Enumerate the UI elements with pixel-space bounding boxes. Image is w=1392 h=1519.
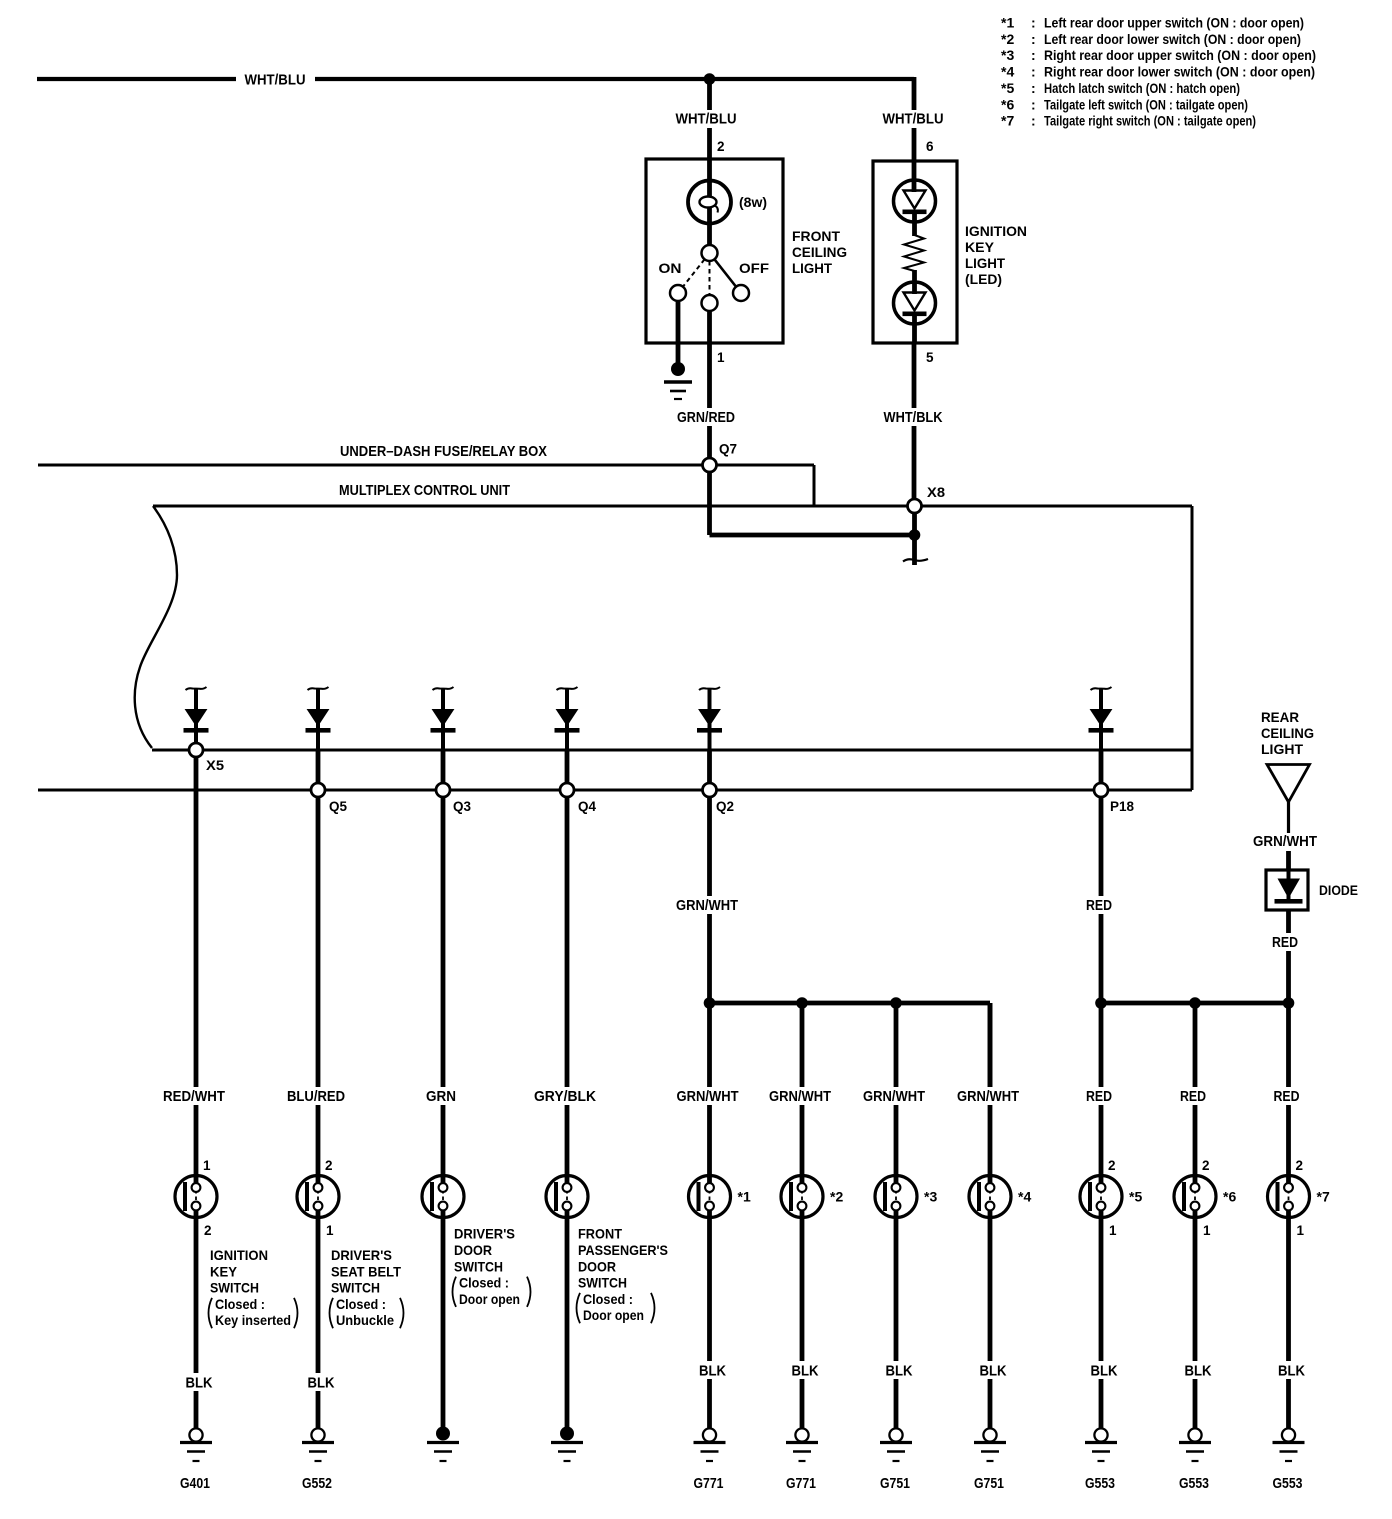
svg-text:BLK: BLK <box>886 1363 913 1380</box>
diode (Q3 column) <box>431 687 456 750</box>
svg-text:IGNITION: IGNITION <box>965 223 1027 239</box>
wire WHT/BLU drop to ignition key light pin 6 <box>912 77 917 161</box>
multiplex control unit inner line <box>152 749 1192 752</box>
svg-text:(8w): (8w) <box>739 195 767 210</box>
wire GRN/WHT down to left rear door lower switch *2 <box>800 1003 805 1183</box>
wire BLK to ground <box>707 1211 712 1429</box>
svg-text:KEY: KEY <box>210 1263 238 1279</box>
svg-text:KEY: KEY <box>965 239 995 255</box>
svg-text:*7: *7 <box>1317 1189 1330 1205</box>
svg-text:6: 6 <box>926 139 934 154</box>
label driver's seat belt switch name <box>330 1247 404 1328</box>
ground G771 <box>694 1428 726 1461</box>
svg-text::: : <box>1031 47 1036 63</box>
svg-text:SWITCH: SWITCH <box>331 1280 380 1296</box>
svg-text:Right rear door lower switch (: Right rear door lower switch (ON : door … <box>1044 64 1315 80</box>
junction branch at *3 <box>890 997 902 1009</box>
svg-text:*7: *7 <box>1001 113 1014 129</box>
label ignition key switch name <box>209 1247 298 1328</box>
connector X8 <box>908 499 922 513</box>
wire resistor to LED2 <box>912 270 917 294</box>
label REAR CEILING LIGHT <box>1261 709 1314 757</box>
svg-text:PASSENGER'S: PASSENGER'S <box>578 1242 668 1258</box>
wire link Q7 branch to X8 branch <box>710 533 915 538</box>
svg-text:*4: *4 <box>1001 64 1014 80</box>
svg-text:*1: *1 <box>738 1189 751 1205</box>
svg-text:DRIVER'S: DRIVER'S <box>454 1226 515 1242</box>
LED 1 ignition key light <box>894 180 936 222</box>
svg-text:*4: *4 <box>1018 1189 1031 1205</box>
svg-text:MULTIPLEX CONTROL UNIT: MULTIPLEX CONTROL UNIT <box>339 482 510 499</box>
switch tailgate right switch *7 <box>1268 1176 1310 1218</box>
wire branch drop *4 <box>988 1003 993 1087</box>
svg-text:Tailgate left switch (ON : tai: Tailgate left switch (ON : tailgate open… <box>1044 96 1248 112</box>
ground G751 <box>880 1428 912 1461</box>
connector Q4 <box>560 783 574 797</box>
svg-text::: : <box>1031 15 1036 31</box>
svg-text::: : <box>1031 31 1036 47</box>
connector X5 <box>189 743 203 757</box>
junction branch at *1 <box>704 997 716 1009</box>
wire to ground <box>565 1211 570 1432</box>
svg-text:SEAT BELT: SEAT BELT <box>331 1263 401 1279</box>
wire right branch bus RED <box>1101 1001 1289 1006</box>
svg-text:2: 2 <box>204 1223 212 1238</box>
svg-text:2: 2 <box>717 139 725 154</box>
wire WHT/BLU drop to front ceiling light pin 2 <box>707 79 712 160</box>
wire diode to connector <box>316 750 321 783</box>
svg-text:*5: *5 <box>1001 80 1014 96</box>
diode (X5 column) <box>184 687 209 743</box>
svg-text:Q5: Q5 <box>329 799 347 814</box>
wire RED down to tailgate right switch *7 <box>1286 1003 1291 1183</box>
svg-text:GRN/WHT: GRN/WHT <box>676 897 738 914</box>
switch arm (OFF position) <box>710 253 742 293</box>
svg-text:FRONT: FRONT <box>578 1226 622 1242</box>
label IGNITION KEY LIGHT (LED) <box>965 223 1027 287</box>
svg-text:Q4: Q4 <box>578 799 596 814</box>
svg-text:RED: RED <box>1086 1088 1112 1105</box>
svg-text:Left rear door upper switch (O: Left rear door upper switch (ON : door o… <box>1044 15 1304 31</box>
wire BLK to ground <box>1099 1211 1104 1429</box>
switch front passenger's door switch <box>546 1176 588 1218</box>
svg-text:OFF: OFF <box>739 260 769 276</box>
label FRONT CEILING LIGHT <box>792 228 847 276</box>
svg-text:G751: G751 <box>974 1475 1004 1492</box>
svg-text:Key inserted: Key inserted <box>215 1312 291 1328</box>
switch right rear door upper switch *3 <box>875 1176 917 1218</box>
switch driver's seat belt switch <box>297 1176 339 1218</box>
wire BLK to ground <box>988 1211 993 1429</box>
wire GRY/BLK down to front passenger's door switch <box>565 797 570 1183</box>
svg-text:G553: G553 <box>1273 1475 1303 1492</box>
wire diode to connector <box>1099 750 1104 783</box>
svg-text:RED/WHT: RED/WHT <box>163 1088 225 1105</box>
svg-text:RED: RED <box>1086 897 1112 914</box>
svg-text:BLK: BLK <box>1091 1363 1118 1380</box>
svg-text:*6: *6 <box>1001 96 1014 112</box>
svg-text:DOOR: DOOR <box>578 1258 616 1274</box>
svg-text:G401: G401 <box>180 1475 210 1492</box>
wire RED down to hatch latch switch *5 <box>1099 1003 1104 1183</box>
svg-text:Door open: Door open <box>583 1307 644 1323</box>
svg-text:GRY/BLK: GRY/BLK <box>534 1088 596 1105</box>
svg-text:RED: RED <box>1274 1088 1300 1105</box>
svg-text:*2: *2 <box>830 1189 843 1205</box>
svg-text:*3: *3 <box>1001 47 1014 63</box>
svg-text:BLK: BLK <box>792 1363 819 1380</box>
svg-text:DIODE: DIODE <box>1319 882 1358 898</box>
svg-text:5: 5 <box>926 350 934 365</box>
contact ON <box>670 285 686 301</box>
wire RED/WHT down to ignition key switch <box>194 757 199 1183</box>
switch driver's door switch <box>422 1176 464 1218</box>
wire GRN down to driver's door switch <box>441 797 446 1183</box>
wire LED1 to resistor <box>912 214 917 236</box>
svg-text:GRN/WHT: GRN/WHT <box>677 1088 739 1105</box>
svg-text:WHT/BLU: WHT/BLU <box>245 72 306 89</box>
svg-text:WHT/BLU: WHT/BLU <box>883 111 944 128</box>
svg-text::: : <box>1031 96 1036 112</box>
svg-text:Hatch latch switch (ON : hatch: Hatch latch switch (ON : hatch open) <box>1044 80 1240 96</box>
svg-text:*1: *1 <box>1001 15 1014 31</box>
multiplex control unit top boundary <box>153 505 1192 508</box>
wire diode to connector <box>565 750 570 783</box>
svg-text:GRN/WHT: GRN/WHT <box>1253 833 1317 850</box>
svg-text:Q2: Q2 <box>716 799 734 814</box>
ground G553 <box>1273 1428 1305 1461</box>
diode (Q5 column) <box>306 687 331 750</box>
wire BLU/RED down to driver's seat belt switch <box>316 797 321 1183</box>
under-dash fuse/relay box boundary line <box>38 465 814 506</box>
switch left rear door upper switch *1 <box>689 1176 731 1218</box>
diode (Q2 column) <box>697 687 722 750</box>
wire WHT/BLK pin5 to X8 <box>912 343 917 499</box>
dashed throw to ON contact <box>678 253 710 293</box>
svg-text:*6: *6 <box>1223 1189 1236 1205</box>
contact center (pin 1) <box>702 295 718 311</box>
connector Q5 <box>311 783 325 797</box>
svg-text:BLU/RED: BLU/RED <box>287 1088 345 1105</box>
wire GRN/RED pin1 to Q7 <box>707 311 712 458</box>
svg-text::: : <box>1031 64 1036 80</box>
ground G553 <box>1085 1428 1117 1461</box>
svg-text:LIGHT: LIGHT <box>1261 741 1303 757</box>
wire GRN/WHT down to right rear door lower switch *4 <box>988 1003 993 1183</box>
svg-text:RED: RED <box>1272 934 1298 951</box>
svg-text::: : <box>1031 80 1036 96</box>
multiplex control unit bottom boundary <box>38 789 1192 792</box>
diode box (rear ceiling light) <box>1266 870 1308 910</box>
wire BLK to ground <box>1193 1211 1198 1429</box>
ground front ceiling light <box>664 362 692 399</box>
svg-text:Door open: Door open <box>459 1291 520 1307</box>
svg-text:GRN/WHT: GRN/WHT <box>957 1088 1019 1105</box>
svg-text:Closed :: Closed : <box>215 1296 265 1312</box>
svg-text:Unbuckle: Unbuckle <box>336 1312 394 1328</box>
wire left branch bus GRN/WHT <box>710 1001 991 1006</box>
label front passenger's door switch name <box>577 1226 669 1324</box>
wire ON contact to ground <box>676 301 681 366</box>
svg-text:LIGHT: LIGHT <box>965 255 1005 271</box>
contact OFF <box>733 285 749 301</box>
wire BLK to ground <box>194 1211 199 1429</box>
resistor ignition key light <box>904 235 924 271</box>
svg-text:1: 1 <box>1297 1223 1305 1238</box>
multiplex control unit right edge <box>1191 506 1194 790</box>
svg-text:G771: G771 <box>694 1475 724 1492</box>
svg-text:BLK: BLK <box>980 1363 1007 1380</box>
bulb front ceiling light (8w) <box>688 181 731 224</box>
wire diode to connector <box>707 750 712 783</box>
wire WHT/BLU top bus <box>37 77 914 81</box>
svg-text:IGNITION: IGNITION <box>210 1247 268 1263</box>
svg-text:WHT/BLK: WHT/BLK <box>884 409 943 426</box>
svg-text:1: 1 <box>1109 1223 1117 1238</box>
svg-text:WHT/BLU: WHT/BLU <box>676 111 737 128</box>
junction branch at *5 <box>1095 997 1107 1009</box>
svg-text:BLK: BLK <box>186 1375 213 1392</box>
wire BLK to ground <box>1286 1211 1291 1429</box>
svg-text:(LED): (LED) <box>965 271 1002 287</box>
diode (Q4 column) <box>555 687 580 750</box>
junction X8 internal <box>909 529 921 541</box>
junction branch at *6 <box>1189 997 1201 1009</box>
wire GRN/WHT down to left rear door upper switch *1 <box>707 1003 712 1183</box>
dashed throw to center contact <box>709 253 711 303</box>
svg-text:BLK: BLK <box>308 1375 335 1392</box>
svg-text:2: 2 <box>1108 1158 1116 1173</box>
svg-text:GRN/WHT: GRN/WHT <box>769 1088 831 1105</box>
svg-text:2: 2 <box>325 1158 333 1173</box>
connector Q7 <box>703 458 717 472</box>
svg-text:ON: ON <box>659 260 682 276</box>
label driver's door switch name <box>453 1226 531 1307</box>
svg-text:CEILING: CEILING <box>1261 725 1314 741</box>
lamp ignition key light box <box>873 161 957 343</box>
ground G552 <box>302 1428 334 1461</box>
svg-text:G553: G553 <box>1179 1475 1209 1492</box>
svg-text:1: 1 <box>1203 1223 1211 1238</box>
svg-text:X8: X8 <box>927 485 946 500</box>
svg-text:BLK: BLK <box>1185 1363 1212 1380</box>
diode (P18 column) <box>1089 687 1114 750</box>
lamp rear ceiling light symbol <box>1267 765 1310 803</box>
internal stub tick <box>903 559 928 562</box>
svg-text:Q3: Q3 <box>453 799 471 814</box>
svg-text:1: 1 <box>203 1158 211 1173</box>
wire into LED 1 <box>912 161 917 192</box>
svg-text:G553: G553 <box>1085 1475 1115 1492</box>
lamp front ceiling light box <box>646 159 783 343</box>
svg-text:*2: *2 <box>1001 31 1014 47</box>
svg-text:Left rear door lower switch (O: Left rear door lower switch (ON : door o… <box>1044 31 1301 47</box>
svg-text:*3: *3 <box>924 1189 937 1205</box>
svg-text:P18: P18 <box>1110 799 1134 814</box>
wire RED diode to branch <box>1286 910 1291 1003</box>
connector P18 <box>1094 783 1108 797</box>
svg-text:Closed :: Closed : <box>459 1275 509 1291</box>
connector Q3 <box>436 783 450 797</box>
svg-text:Closed :: Closed : <box>583 1291 633 1307</box>
ground G751 <box>974 1428 1006 1461</box>
connector Q2 <box>703 783 717 797</box>
wire rear ceiling light to diode <box>1287 802 1290 870</box>
svg-text:UNDER–DASH FUSE/RELAY BOX: UNDER–DASH FUSE/RELAY BOX <box>340 443 547 460</box>
svg-text:GRN: GRN <box>426 1088 456 1105</box>
svg-text:BLK: BLK <box>699 1363 726 1380</box>
svg-text:1: 1 <box>717 350 725 365</box>
switch right rear door lower switch *4 <box>969 1176 1011 1218</box>
wire GRN/WHT down to right rear door upper switch *3 <box>894 1003 899 1183</box>
LED 2 ignition key light <box>894 282 936 324</box>
svg-text:G771: G771 <box>786 1475 816 1492</box>
ground driver's door switch ground <box>427 1427 459 1462</box>
svg-text:Q7: Q7 <box>719 442 737 457</box>
svg-text:REAR: REAR <box>1261 709 1299 725</box>
junction branch at *2 <box>796 997 808 1009</box>
wire Q7 down inside multiplex <box>707 472 712 535</box>
junction top bus to front ceiling light <box>704 73 716 85</box>
switch left rear door lower switch *2 <box>781 1176 823 1218</box>
svg-text:G552: G552 <box>302 1475 332 1492</box>
wire inside ceiling light pin2 to switch common <box>707 159 712 253</box>
switch tailgate left switch *6 <box>1174 1176 1216 1218</box>
svg-text:DRIVER'S: DRIVER'S <box>331 1247 392 1263</box>
wire BLK to ground <box>316 1211 321 1429</box>
wire RED P18 to branch <box>1099 797 1104 1003</box>
wire LED2 to pin 5 <box>912 316 917 343</box>
svg-text:SWITCH: SWITCH <box>210 1280 259 1296</box>
ground front passenger's door switch ground <box>551 1427 583 1462</box>
wire BLK to ground <box>800 1211 805 1429</box>
svg-text:*5: *5 <box>1129 1189 1142 1205</box>
svg-text::: : <box>1031 113 1036 129</box>
svg-text:GRN/RED: GRN/RED <box>677 409 735 426</box>
svg-text:Closed :: Closed : <box>336 1296 386 1312</box>
multiplex control unit break squiggle <box>135 506 177 748</box>
wire RED down to tailgate left switch *6 <box>1193 1003 1198 1183</box>
ground G771 <box>786 1428 818 1461</box>
wire GRN/WHT Q2 to branch <box>707 797 712 1003</box>
switch common contact front ceiling light <box>702 245 718 261</box>
diode symbol <box>1275 870 1303 904</box>
svg-text:Right rear door upper switch (: Right rear door upper switch (ON : door … <box>1044 47 1316 63</box>
junction branch at *7 <box>1283 997 1295 1009</box>
svg-text:BLK: BLK <box>1278 1363 1305 1380</box>
svg-text:1: 1 <box>326 1223 334 1238</box>
switch ignition key switch <box>175 1176 217 1218</box>
svg-text:SWITCH: SWITCH <box>454 1258 503 1274</box>
wire to ground <box>441 1211 446 1432</box>
svg-text:FRONT: FRONT <box>792 228 840 244</box>
svg-text:Tailgate right switch (ON : ta: Tailgate right switch (ON : tailgate ope… <box>1044 113 1256 129</box>
svg-text:CEILING: CEILING <box>792 244 847 260</box>
legend notes *1-*7 <box>1001 15 1316 129</box>
wire BLK to ground <box>894 1211 899 1429</box>
svg-text:DOOR: DOOR <box>454 1242 492 1258</box>
svg-text:G751: G751 <box>880 1475 910 1492</box>
switch hatch latch switch *5 <box>1080 1176 1122 1218</box>
wire X8 down <box>912 513 917 565</box>
svg-text:LIGHT: LIGHT <box>792 260 832 276</box>
svg-text:SWITCH: SWITCH <box>578 1275 627 1291</box>
svg-text:GRN/WHT: GRN/WHT <box>863 1088 925 1105</box>
ground G401 <box>180 1428 212 1461</box>
svg-text:RED: RED <box>1180 1088 1206 1105</box>
svg-text:X5: X5 <box>206 758 225 773</box>
svg-text:2: 2 <box>1202 1158 1210 1173</box>
svg-text:2: 2 <box>1296 1158 1304 1173</box>
wire diode to connector <box>441 750 446 783</box>
ground G553 <box>1179 1428 1211 1461</box>
